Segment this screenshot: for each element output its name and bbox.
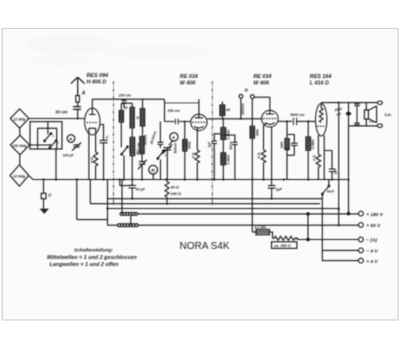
wire link 10uF — [120, 180, 132, 186]
wire V3 anode — [278, 120, 292, 122]
switch 2 — [49, 140, 57, 149]
svg-text:RE 034: RE 034 — [180, 74, 198, 80]
svg-text:ca. 350 Ω: ca. 350 Ω — [274, 244, 291, 248]
wire chain2 to terminal 60 — [138, 224, 358, 226]
switch Sch — [322, 180, 330, 195]
svg-text:4 Ω: 4 Ω — [191, 153, 195, 160]
svg-text:2: 2 — [164, 153, 167, 157]
wave switch box outer — [30, 122, 62, 149]
bus B5 — [108, 208, 339, 210]
svg-text:200 cm: 200 cm — [118, 93, 132, 97]
capacitor 200cm — [121, 99, 126, 110]
svg-text:RE 034: RE 034 — [253, 74, 271, 80]
terminal -4V — [322, 248, 363, 253]
svg-text:80cm: 80cm — [229, 141, 233, 149]
dash-dot gang line 2 — [211, 81, 213, 205]
capacitor 50cm — [73, 107, 81, 119]
svg-text:250 cm: 250 cm — [167, 109, 181, 113]
ground — [40, 209, 49, 214]
svg-text:A: A — [171, 135, 175, 140]
svg-text:2: 2 — [56, 141, 59, 145]
wire L3 to 10uF — [131, 156, 133, 185]
bus B3 — [108, 198, 323, 200]
svg-text:40: 40 — [225, 108, 230, 112]
wire V4 pin2 — [323, 135, 325, 179]
capacitor 5000cm coupling — [293, 118, 315, 126]
svg-text:3000cm: 3000cm — [241, 103, 245, 115]
capacitor 80cm — [223, 135, 237, 180]
resistor 2Mohm g2 — [250, 126, 254, 232]
svg-text:Sch: Sch — [327, 189, 335, 194]
svg-text:0,1 MΩ: 0,1 MΩ — [255, 225, 266, 229]
svg-text:0,3MΩ: 0,3MΩ — [226, 154, 230, 164]
bus B4 — [90, 180, 320, 204]
tube V1 RES094 — [85, 99, 100, 135]
junction dots anode lines — [222, 118, 310, 123]
wire V2 grid left — [185, 122, 191, 140]
svg-text:50 cm: 50 cm — [56, 109, 68, 114]
grid terminal G2 — [250, 95, 254, 127]
terminal +60V — [359, 223, 364, 228]
svg-text:+ 180 V: + 180 V — [366, 212, 383, 218]
wire tube V1 cathode to B1 — [88, 135, 90, 180]
wave switch box inner — [38, 128, 57, 149]
resistor 40/240 ohm — [165, 180, 169, 204]
svg-text:40: 40 — [123, 106, 128, 110]
svg-text:1μF: 1μF — [276, 187, 283, 191]
heater chain 1 — [120, 180, 138, 216]
svg-text:240 Ω: 240 Ω — [170, 192, 181, 196]
antenna A — [71, 77, 85, 106]
note Schalterstellung — [47, 247, 137, 268]
svg-text:La₂: La₂ — [385, 112, 392, 117]
wire V3 cathode — [264, 124, 267, 150]
svg-text:W 406: W 406 — [253, 81, 270, 87]
wire L4 to L5 — [142, 126, 144, 137]
svg-text:500cm: 500cm — [143, 134, 147, 145]
coil diamond 230 Wdg — [10, 135, 29, 154]
svg-text:RES 164: RES 164 — [310, 74, 332, 80]
coil L3 — [130, 137, 135, 155]
svg-text:N: N — [136, 116, 139, 120]
wire antenna to grid bus — [29, 118, 85, 120]
coil L5 — [140, 137, 144, 154]
svg-text:10 μF: 10 μF — [136, 188, 146, 192]
svg-text:La₁: La₁ — [369, 119, 375, 123]
capacitor 1uF out — [268, 186, 276, 199]
wire L2 to L3 — [131, 128, 133, 138]
svg-text:+ 60 V: + 60 V — [366, 223, 381, 229]
junction top line — [338, 102, 340, 104]
resistor 0.1Mohm box — [252, 229, 272, 238]
svg-text:100 pF: 100 pF — [63, 154, 75, 158]
wire diamond links — [19, 128, 21, 165]
coil L4 — [140, 99, 144, 126]
svg-text:− 4 V: − 4 V — [366, 249, 378, 255]
svg-text:230 Wdg: 230 Wdg — [12, 144, 28, 148]
svg-text:RES 094: RES 094 — [87, 73, 109, 79]
resistor 0.1Mohm — [221, 119, 226, 140]
wire chain link — [130, 215, 132, 225]
junction dot speaker return — [338, 208, 340, 227]
wire output drop to +180 — [348, 103, 350, 214]
switch 1b — [121, 146, 128, 179]
wire output top line — [321, 102, 377, 104]
resistor 4ohm V2 — [195, 150, 199, 180]
svg-text:5000 cm: 5000 cm — [290, 113, 305, 117]
svg-text:4 Ω: 4 Ω — [257, 153, 261, 160]
coil diamond 12 Wdg lower — [10, 165, 29, 186]
resistor 2ohm — [316, 154, 320, 179]
wire box to bus B1 — [55, 149, 57, 180]
svg-text:2MΩ: 2MΩ — [255, 129, 259, 137]
svg-text:NORA S4K: NORA S4K — [180, 241, 230, 252]
wire tube V2 top link — [165, 102, 200, 104]
dash-dot gang line 1 — [113, 81, 115, 205]
wire V2 grid row — [165, 121, 191, 123]
jack terminal — [346, 112, 351, 116]
svg-text:0,5MΩ: 0,5MΩ — [311, 139, 315, 149]
wire V2 cathode — [196, 128, 198, 150]
terminal +4V — [322, 250, 363, 263]
svg-text:G: G — [244, 88, 248, 93]
resistor 0.3Mohm — [221, 140, 226, 180]
trimmer capacitor 100pF — [72, 143, 81, 151]
svg-text:− (A): − (A) — [366, 238, 377, 244]
capacitor 10uF — [128, 185, 136, 198]
capacitor 250cm — [175, 119, 178, 124]
svg-text:H 406 D: H 406 D — [87, 80, 107, 86]
wire top bus — [92, 98, 164, 100]
terminal -A — [295, 213, 364, 242]
svg-text:12 Wdg: 12 Wdg — [13, 117, 26, 121]
svg-text:Langwellen = 1 und 2 offen: Langwellen = 1 und 2 offen — [50, 262, 120, 268]
capacitor 1uF if — [212, 134, 224, 180]
coil L1 — [119, 111, 123, 123]
resistor 4ohm V3 — [261, 150, 265, 180]
svg-text:Mittelwellen = 1 und 2 geschlo: Mittelwellen = 1 und 2 geschlossen — [47, 255, 137, 261]
capacitor pair output — [354, 103, 360, 126]
resistor 4ohm V1 — [93, 135, 97, 180]
tube V4 RES164 — [316, 103, 327, 136]
capacitor C below V1 — [100, 125, 108, 180]
svg-text:1MΩ: 1MΩ — [280, 141, 284, 148]
gang section A1 — [67, 135, 75, 143]
wire diamond2 to switch box — [30, 144, 50, 146]
wire V2 top — [198, 99, 200, 103]
wire chain1 to terminal 180 — [138, 213, 359, 215]
wire L5 down to B1 — [141, 154, 143, 180]
wire V3 pin2 down — [271, 127, 273, 185]
junction dots B1 — [42, 178, 349, 180]
trimmer capacitor ant2 — [162, 145, 172, 180]
svg-text:L 416 D: L 416 D — [310, 81, 329, 87]
coil L2 — [124, 103, 134, 128]
coil diamond 12 Wdg — [10, 109, 29, 128]
resistor 1Mohm — [285, 121, 289, 179]
bus B1 chassis — [29, 176, 349, 180]
resistor 0.5Mohm — [306, 121, 311, 179]
value 4000cm — [333, 107, 342, 117]
svg-text:2MΩ: 2MΩ — [188, 141, 192, 150]
padder R — [149, 165, 158, 179]
resistor 2Mohm grid V2 — [183, 140, 187, 180]
svg-text:4 Ω: 4 Ω — [90, 157, 94, 164]
svg-text:2 Ω: 2 Ω — [312, 155, 316, 162]
wire speaker return — [338, 103, 340, 209]
capacitor 1uF k — [324, 151, 335, 180]
junction dots B3 — [55, 178, 273, 209]
capacitor parallel 1Mohm — [287, 135, 298, 156]
switch 2b — [157, 150, 164, 179]
svg-text:A: A — [81, 91, 86, 97]
wire b5 end drop — [338, 209, 340, 225]
capacitor C to ground — [41, 180, 46, 209]
svg-text:W 406: W 406 — [180, 81, 197, 87]
resistor ca350 — [273, 236, 297, 240]
svg-text:500cm: 500cm — [173, 143, 177, 154]
wire top bus drop — [164, 99, 166, 121]
svg-text:12 Wdg: 12 Wdg — [13, 174, 26, 178]
svg-text:Schalterstellung:: Schalterstellung: — [74, 247, 113, 253]
svg-text:+ 4 V: + 4 V — [366, 259, 378, 265]
wire Sch to -4V — [321, 194, 323, 250]
wire output bottom line — [349, 125, 378, 127]
gang section A2 — [169, 133, 178, 146]
capacitor before switch 2b — [157, 122, 163, 149]
trimmer capacitor osc — [138, 160, 147, 170]
heater chain 2 — [77, 180, 138, 227]
svg-text:A: A — [68, 137, 72, 142]
junction switch box — [49, 144, 51, 146]
grid terminal G1 — [239, 94, 243, 118]
wire L1 to switch1b — [120, 122, 122, 147]
junction grid — [184, 121, 186, 123]
terminal +180V — [347, 211, 363, 216]
junction antenna — [77, 117, 79, 119]
tube V2 RE034 — [191, 103, 207, 131]
switch 1 — [44, 133, 52, 142]
svg-text:500 cm: 500 cm — [136, 142, 140, 155]
wire box internal — [47, 122, 49, 135]
svg-text:C: C — [106, 135, 109, 140]
wire V2 anode line — [207, 118, 262, 120]
speaker La — [364, 101, 382, 127]
coil IF1 — [220, 102, 225, 119]
tube V3 RE034 — [254, 97, 278, 127]
svg-text:40 Ω: 40 Ω — [170, 186, 179, 190]
wire V4 cathode — [317, 135, 319, 154]
label ca 350 box — [272, 242, 297, 249]
